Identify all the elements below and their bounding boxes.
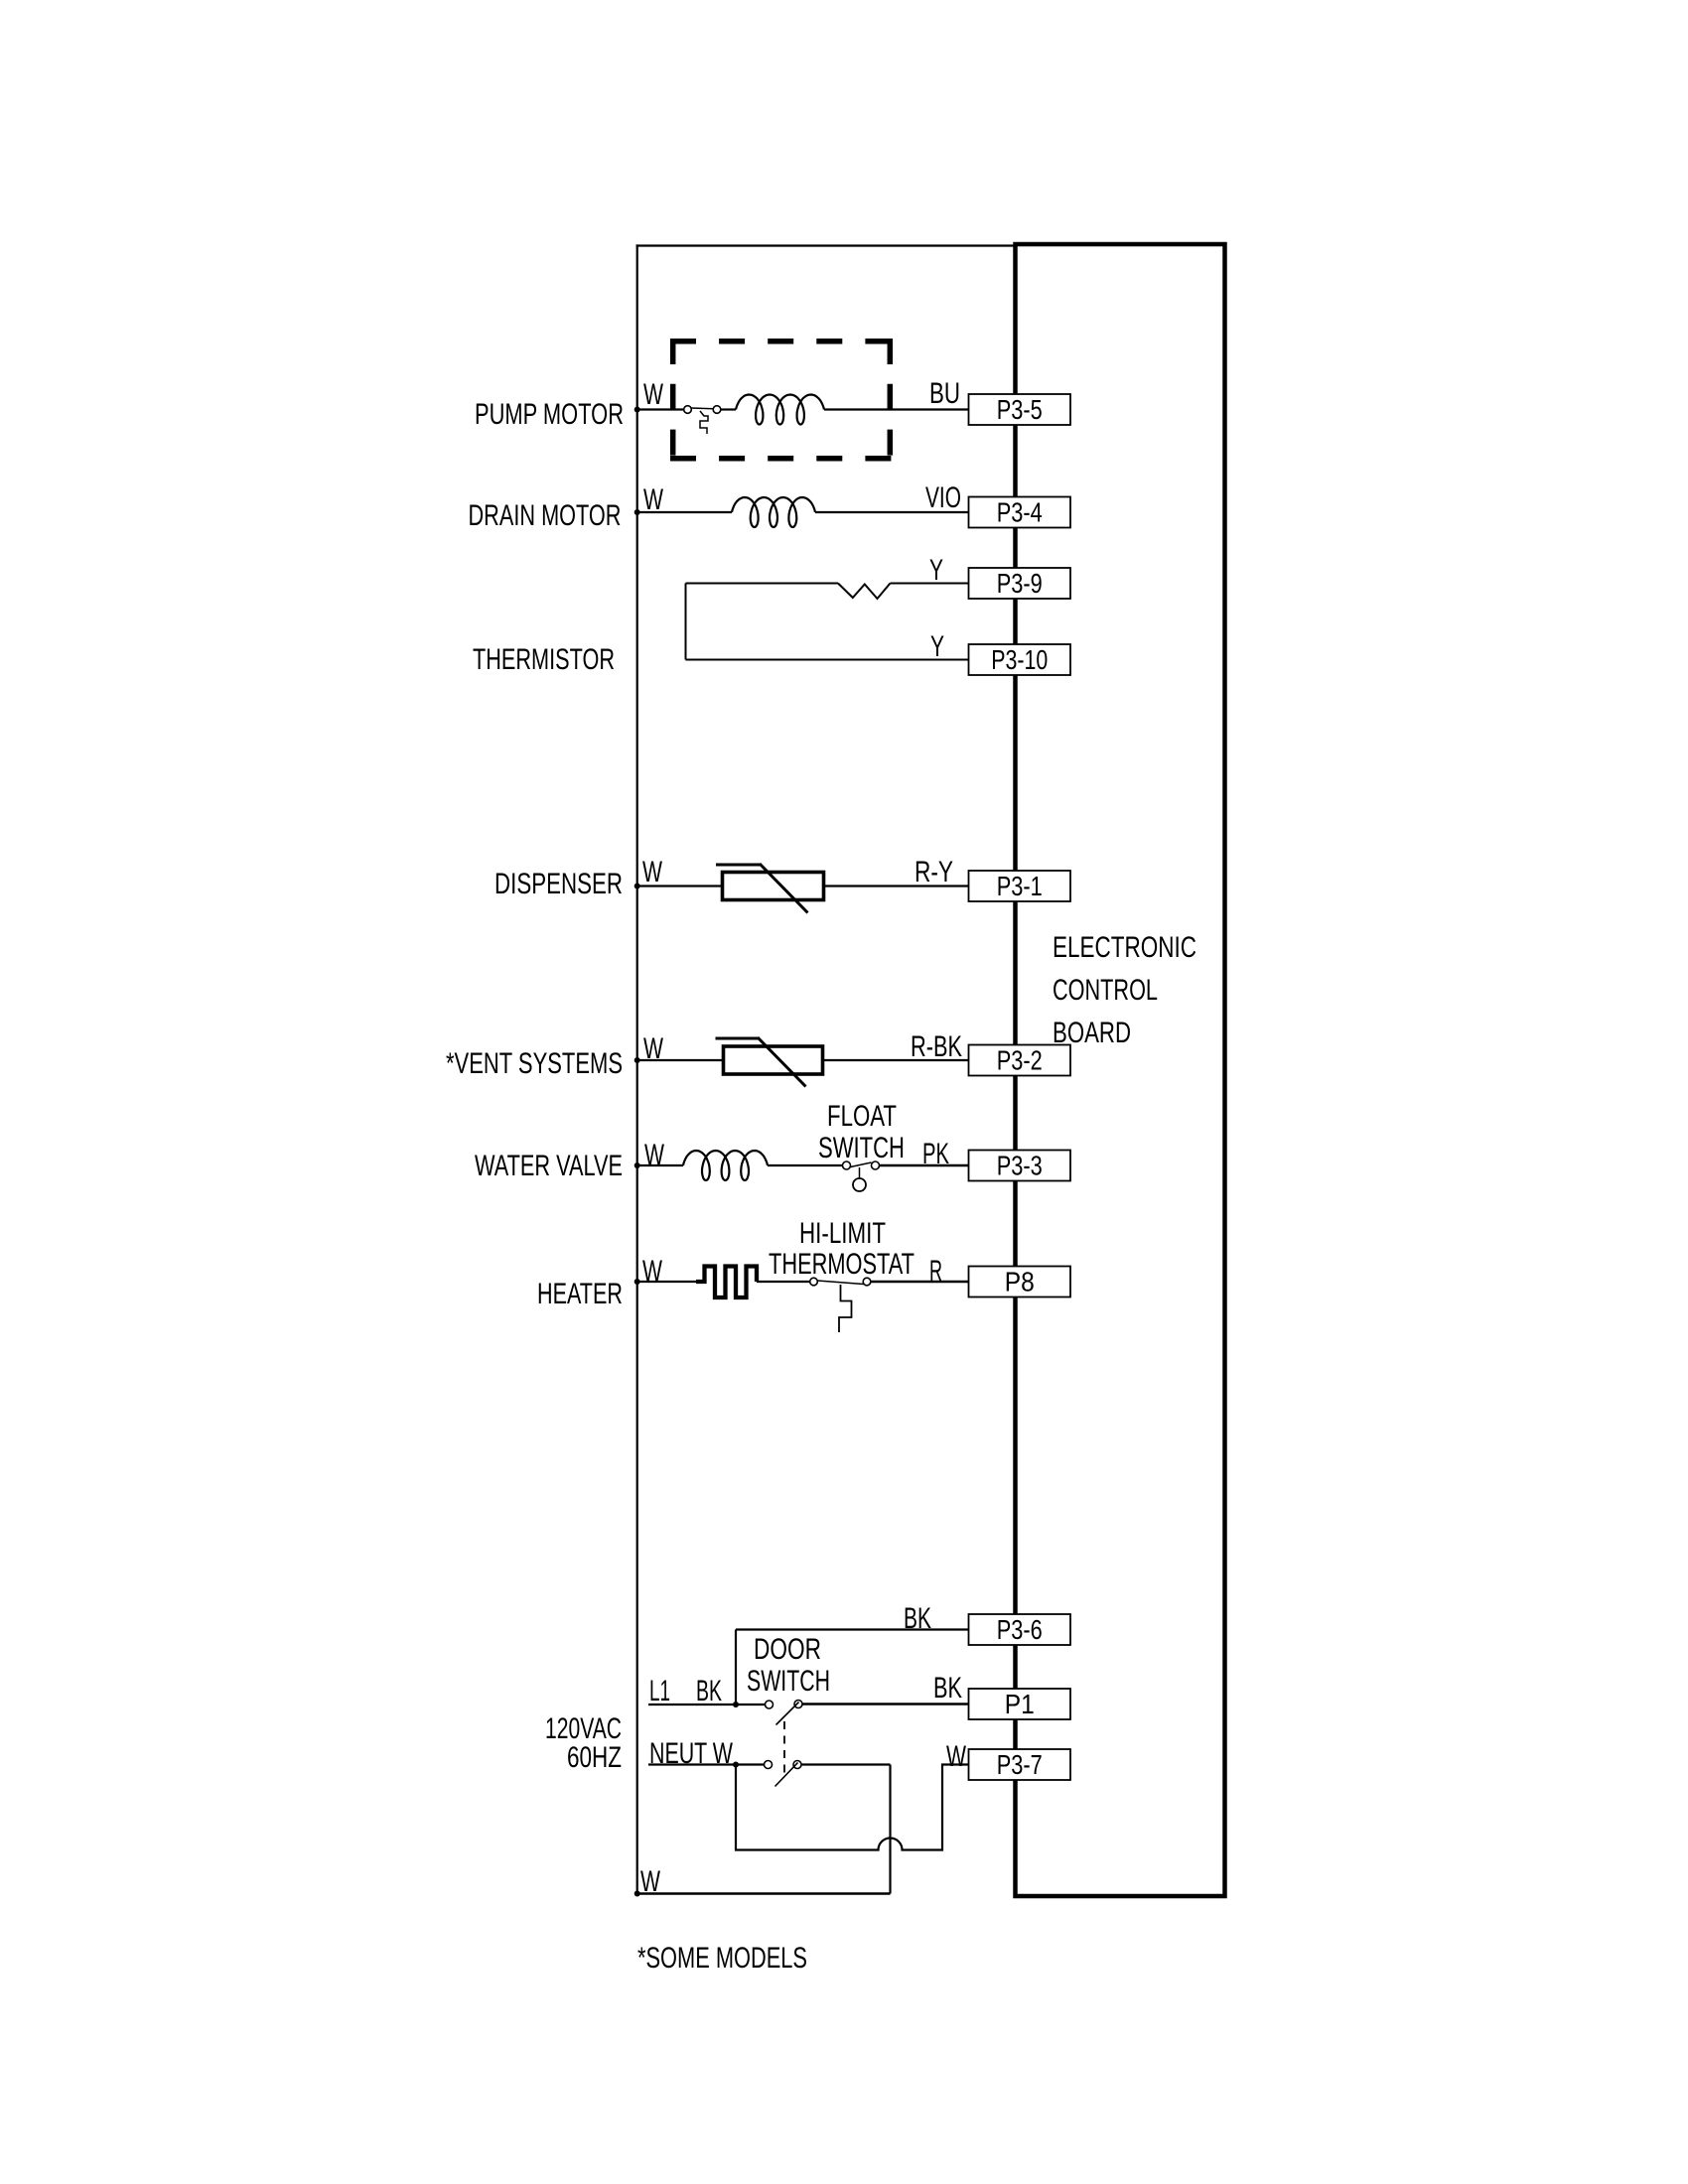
svg-text:THERMOSTAT: THERMOSTAT	[769, 1248, 914, 1281]
svg-text:Y: Y	[930, 630, 944, 663]
svg-text:Y: Y	[929, 554, 943, 587]
door switch mechanical link	[783, 1721, 785, 1774]
wire valve left	[637, 1164, 683, 1166]
pump thermal protector contact 1	[684, 406, 692, 414]
connector P3-3	[969, 1151, 1071, 1181]
wire door switch to P1	[802, 1703, 969, 1705]
drain motor winding	[732, 497, 815, 527]
wire float switch to P3-3	[880, 1164, 969, 1166]
wire vertical P3-6 branch	[735, 1630, 737, 1706]
node: vent W junction	[634, 1057, 640, 1063]
thermistor top wire	[686, 583, 839, 585]
wire: top bus to board	[636, 244, 1015, 246]
node: valve W junction	[634, 1162, 640, 1168]
door switch lower contact 1	[765, 1761, 773, 1769]
door switch upper contact 2	[794, 1701, 802, 1708]
wire pump left	[637, 408, 684, 410]
wire thermostat to P8	[871, 1281, 969, 1284]
vent flag line	[716, 1037, 760, 1040]
dispenser wax motor symbol	[716, 864, 824, 913]
svg-text:P3-1: P3-1	[997, 871, 1043, 901]
thermistor bottom wire to P3-10	[686, 659, 969, 661]
wire L1 in	[648, 1704, 766, 1706]
electronic control board box U1	[1016, 244, 1225, 1896]
svg-text:SWITCH: SWITCH	[818, 1132, 905, 1164]
wire pump to P3-5	[824, 408, 969, 410]
door switch upper contact 1	[766, 1701, 774, 1708]
svg-text:P8: P8	[1005, 1267, 1035, 1297]
svg-text:60HZ: 60HZ	[567, 1741, 622, 1774]
vent wax motor symbol	[716, 1037, 823, 1087]
wire heater to thermostat	[757, 1281, 810, 1283]
svg-text:CONTROL: CONTROL	[1053, 974, 1158, 1007]
node: pump W junction	[634, 407, 640, 413]
float ball	[853, 1178, 866, 1191]
wire lower switch to vertical	[801, 1763, 891, 1765]
connector P3-9	[969, 568, 1071, 599]
svg-text:PUMP MOTOR: PUMP MOTOR	[475, 398, 624, 431]
node: bottom W junction	[634, 1891, 640, 1897]
svg-text:FLOAT: FLOAT	[827, 1100, 897, 1133]
dispenser diagonal strike	[760, 864, 808, 913]
wire drain left	[637, 511, 732, 513]
float switch stem	[859, 1167, 861, 1178]
connector P3-10	[969, 644, 1071, 675]
connector P3-4	[969, 497, 1071, 528]
svg-text:DISPENSER: DISPENSER	[494, 868, 623, 900]
wire vent to P3-2	[824, 1059, 969, 1061]
svg-text:R-Y: R-Y	[914, 856, 953, 888]
svg-text:W: W	[643, 378, 663, 411]
pump motor dashed enclosure	[670, 339, 893, 461]
svg-text:HEATER: HEATER	[537, 1278, 623, 1310]
wire dispenser left	[637, 885, 721, 887]
pump protector squiggle	[700, 411, 708, 434]
svg-text:P3-4: P3-4	[997, 497, 1043, 528]
wire vertical down to bottom W wire	[889, 1765, 891, 1894]
svg-text:P3-7: P3-7	[997, 1749, 1043, 1780]
wire: bottom W wire	[636, 1892, 891, 1895]
svg-text:W: W	[946, 1740, 966, 1773]
hi-limit thermostat contact 1	[810, 1278, 818, 1286]
thermostat bimetal staircase	[839, 1285, 852, 1332]
svg-text:P3-6: P3-6	[997, 1614, 1043, 1645]
door switch lower contact 2	[793, 1761, 801, 1769]
heater element E1	[696, 1267, 757, 1298]
svg-text:W: W	[642, 856, 662, 888]
connector P3-5	[969, 394, 1071, 425]
svg-text:BK: BK	[933, 1672, 962, 1705]
wire drain to P3-4	[815, 511, 969, 513]
vent diagonal strike	[758, 1037, 806, 1087]
svg-text:WATER VALVE: WATER VALVE	[475, 1150, 623, 1182]
wire NEUT branch loop to P3-7	[736, 1765, 969, 1850]
connector P8	[969, 1267, 1071, 1297]
svg-text:P3-2: P3-2	[997, 1045, 1043, 1076]
wire NEUT in	[648, 1763, 765, 1765]
pump thermal protector contact 2	[713, 406, 721, 414]
door switch lower blade	[775, 1763, 798, 1787]
dispenser flag line	[716, 864, 761, 867]
connector P3-6	[969, 1614, 1071, 1645]
svg-text:P3-5: P3-5	[997, 394, 1043, 425]
node: NEUT branch junction	[733, 1762, 739, 1768]
svg-text:THERMISTOR: THERMISTOR	[473, 643, 615, 676]
node: L1 / P3-6 junction	[733, 1702, 739, 1707]
svg-text:VIO: VIO	[925, 481, 961, 514]
svg-text:L1: L1	[649, 1675, 670, 1707]
wire door switch to P3-6	[736, 1628, 969, 1630]
svg-text:P3-10: P3-10	[991, 644, 1048, 675]
node: drain W junction	[634, 509, 640, 515]
pump motor winding L1	[736, 395, 824, 425]
door switch upper blade	[776, 1703, 799, 1725]
svg-text:BK: BK	[696, 1675, 722, 1707]
node: heater W junction	[634, 1279, 640, 1285]
connector P3-2	[969, 1045, 1071, 1076]
thermistor left vertical wire	[685, 584, 687, 660]
wire zigzag to P3-9	[891, 583, 969, 585]
svg-text:R-BK: R-BK	[911, 1030, 962, 1063]
svg-text:HI-LIMIT: HI-LIMIT	[799, 1217, 886, 1250]
wire: left neutral bus	[636, 244, 638, 1893]
water valve solenoid coil	[683, 1151, 768, 1180]
float switch contact 2	[872, 1161, 880, 1169]
svg-text:P3-3: P3-3	[997, 1151, 1043, 1181]
svg-text:DOOR: DOOR	[754, 1633, 821, 1666]
wire to pump winding	[721, 408, 736, 410]
svg-text:BU: BU	[929, 377, 960, 410]
thermostat blade	[818, 1281, 864, 1285]
connector P1	[969, 1689, 1071, 1719]
wire heater left	[637, 1281, 696, 1283]
float switch contact 1	[843, 1161, 851, 1169]
connector P3-7	[969, 1749, 1071, 1780]
node: dispenser W junction	[634, 884, 640, 889]
svg-text:P3-9: P3-9	[997, 568, 1043, 599]
svg-text:BK: BK	[904, 1602, 931, 1635]
svg-text:*VENT SYSTEMS: *VENT SYSTEMS	[446, 1047, 623, 1080]
float switch blade	[851, 1162, 872, 1167]
svg-text:*SOME MODELS: *SOME MODELS	[637, 1942, 807, 1975]
svg-text:W: W	[640, 1865, 660, 1898]
hi-limit thermostat contact 2	[863, 1278, 871, 1286]
wire vent left	[637, 1059, 722, 1061]
thermistor RT1 zigzag	[838, 584, 891, 600]
svg-text:P1: P1	[1005, 1689, 1035, 1719]
svg-text:ELECTRONIC: ELECTRONIC	[1053, 931, 1196, 964]
wire dispenser to P3-1	[825, 885, 969, 887]
svg-text:DRAIN MOTOR: DRAIN MOTOR	[469, 499, 622, 532]
pump switch blade	[692, 407, 714, 410]
connector P3-1	[969, 871, 1071, 901]
wire coil to float switch	[768, 1164, 843, 1166]
svg-text:SWITCH: SWITCH	[747, 1665, 830, 1698]
